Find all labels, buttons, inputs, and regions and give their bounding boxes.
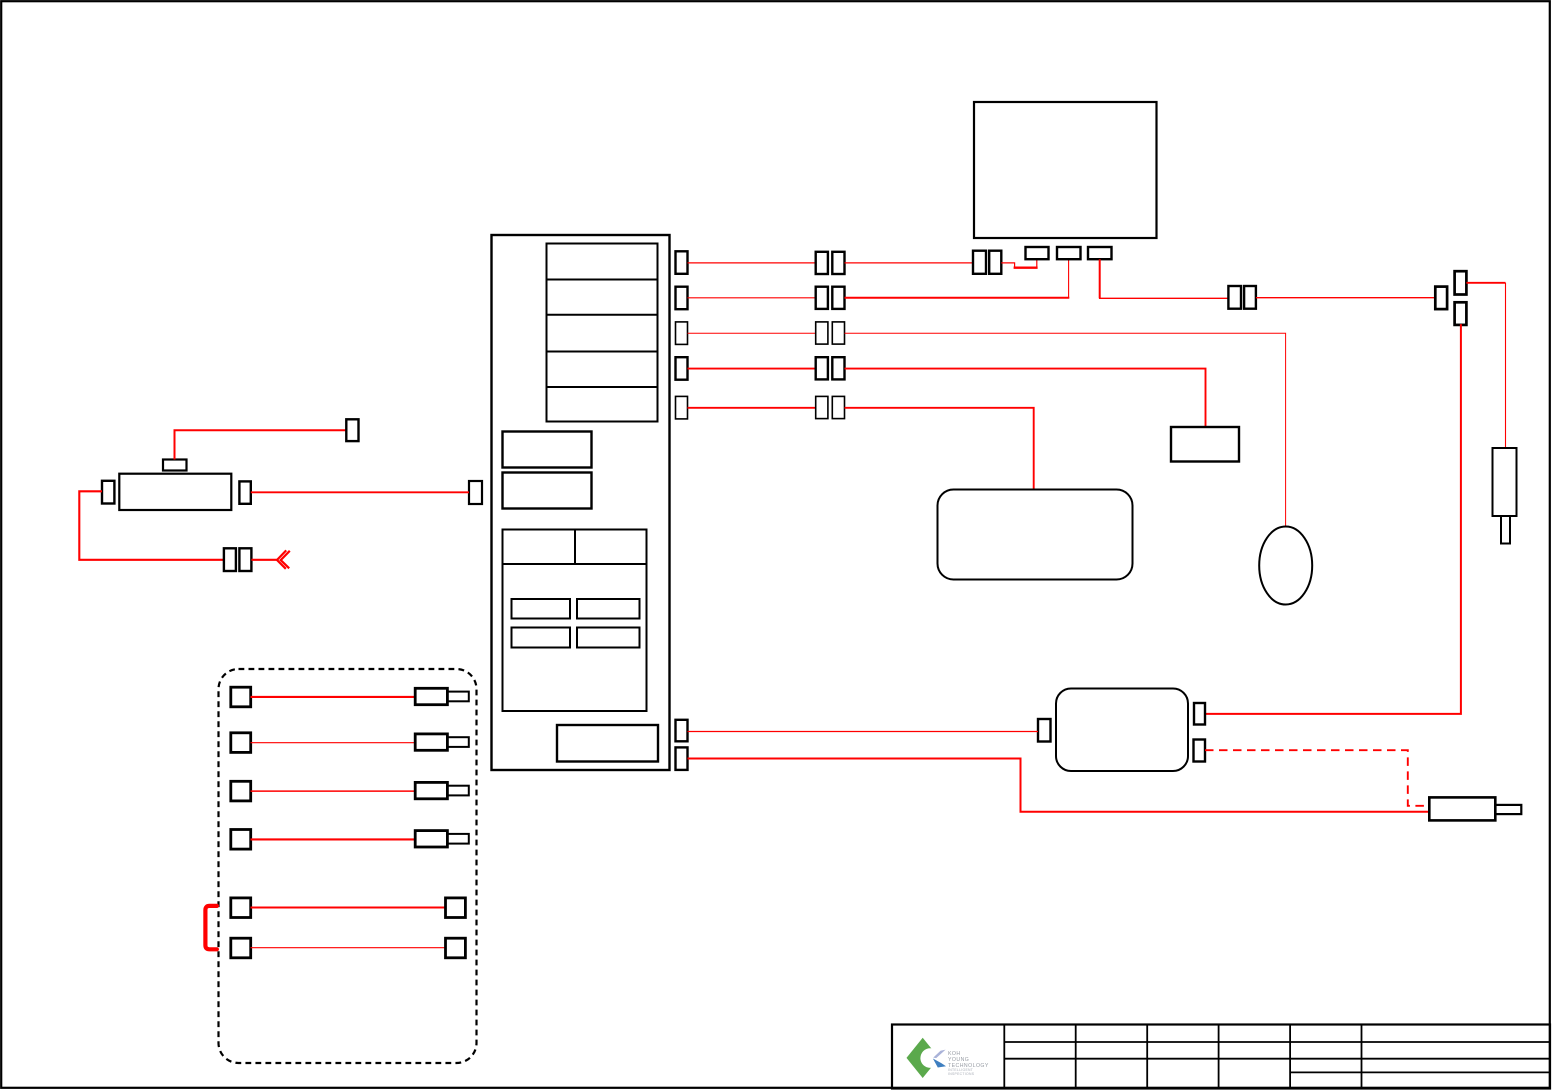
wire CN7 to DC plug	[688, 759, 1430, 812]
cable row 2 plug	[415, 734, 469, 750]
video port 1	[1026, 247, 1049, 259]
wire P4 to junction box	[845, 369, 1206, 427]
connector CN8	[1435, 287, 1447, 310]
cable row 1 wire	[251, 696, 416, 698]
wire west connector to pair P8	[79, 491, 224, 560]
cable row 3 plug	[415, 782, 469, 798]
connector CN3	[676, 322, 688, 345]
wire east connector to control unit left connector	[251, 491, 469, 493]
connector CN9 upper	[1455, 271, 1467, 294]
wire P8 stub to detach symbol	[251, 559, 277, 561]
wire CN10 down to motor right-top connector	[1205, 324, 1461, 714]
title block frame	[892, 1025, 1550, 1089]
connector CN2	[676, 287, 688, 310]
inline connector pair P8	[224, 548, 252, 571]
wire P1 to monitor pair P6	[845, 262, 974, 264]
wire P5 to camera unit	[845, 408, 1034, 490]
monitor connector pair P6	[973, 251, 1001, 274]
motor connector left	[1038, 719, 1051, 742]
cable row 5 left square	[231, 898, 251, 918]
left device body	[119, 474, 231, 510]
connector K1	[346, 419, 358, 441]
cable row 6 left square	[231, 938, 251, 958]
logo blue swoosh lower	[933, 1059, 946, 1068]
wire CN5 to pair P5	[688, 407, 816, 409]
video port 2	[1057, 247, 1081, 259]
connector CN5	[676, 396, 688, 419]
inline connector pair P4	[816, 357, 845, 379]
svg-text:INSPECTIONS: INSPECTIONS	[948, 1072, 975, 1076]
motor connector right top	[1194, 703, 1205, 725]
camera unit rounded box	[938, 490, 1133, 580]
module slot A	[503, 432, 592, 468]
fuse F2	[577, 599, 640, 619]
cable row 3 square	[231, 781, 251, 801]
relay section header row	[503, 530, 647, 565]
title block column dividers	[1004, 1025, 1361, 1089]
logo blue swoosh upper	[933, 1050, 945, 1059]
dashed wire motor to DC plug	[1205, 750, 1429, 806]
monitor display box	[974, 102, 1157, 238]
wire CN1 to pair P1	[688, 262, 816, 264]
title block row lines	[1004, 1042, 1550, 1072]
cable row 3 wire	[251, 790, 416, 792]
wire P7 to connector CN8	[1256, 297, 1435, 299]
connector CN10 lower	[1455, 302, 1467, 325]
connector CN7	[676, 747, 688, 770]
terminal strip block (5 slots)	[547, 244, 658, 422]
antenna stick stub	[1501, 516, 1510, 544]
inline connector pair P7	[1228, 286, 1256, 309]
wire P6 to video port 1	[1001, 259, 1037, 267]
sensor ellipse	[1259, 527, 1312, 605]
inline connector pair P3	[816, 322, 845, 344]
video port 3	[1088, 247, 1112, 259]
inline connector pair P2	[816, 287, 845, 309]
red pairing bracket	[205, 906, 217, 949]
cable row 6 right square	[446, 938, 466, 958]
cable row 4 wire	[251, 838, 416, 840]
DC plug body	[1429, 797, 1495, 820]
power supply box	[557, 725, 658, 762]
cable row 5 wire	[251, 906, 446, 908]
connector CN-L on control unit left edge	[469, 481, 482, 504]
cable row 6 wire	[251, 947, 446, 949]
motor connector right bottom	[1194, 740, 1206, 762]
cable row 4 plug	[415, 831, 469, 847]
wire P3 to sensor ellipse	[845, 333, 1286, 526]
left device connector west	[102, 481, 114, 504]
logo white circle	[920, 1048, 940, 1068]
cable row 5 right square	[446, 898, 466, 918]
wire CN9 to antenna stick	[1466, 282, 1505, 284]
control unit main box	[492, 235, 670, 770]
fuse F1	[512, 599, 571, 619]
connector CN6	[676, 720, 688, 742]
left device top port	[163, 460, 187, 471]
connector CN1	[676, 251, 688, 273]
antenna stick body	[1493, 448, 1517, 516]
motor unit rounded box	[1056, 689, 1188, 772]
left device connector east	[239, 481, 250, 503]
wire video port 3 to pair P7	[1099, 259, 1228, 298]
module slot B	[503, 473, 592, 509]
wire CN2 to pair P2	[688, 297, 816, 299]
cable group dashed enclosure	[219, 669, 477, 1063]
cable row 1 square	[231, 687, 251, 707]
logo text	[948, 1051, 989, 1069]
inline connector pair P1	[816, 252, 845, 274]
cable row 2 square	[231, 733, 251, 753]
wire top port to connector K1	[175, 430, 347, 459]
wire P2 to video port 2	[845, 259, 1070, 298]
connector CN4	[676, 357, 688, 380]
wire CN6 to motor left connector	[688, 731, 1039, 733]
wire CN3 to pair P3	[688, 332, 816, 334]
Koh Young logo diamond	[907, 1038, 940, 1078]
DC plug tip	[1495, 805, 1521, 814]
cable row 2 wire	[251, 742, 416, 744]
detach chevron symbol	[277, 550, 290, 568]
inline connector pair P5	[816, 396, 845, 418]
wire CN4 to pair P4	[688, 368, 816, 370]
fuse F3	[512, 628, 571, 648]
cable row 1 plug	[415, 688, 469, 704]
fuse F4	[577, 628, 640, 648]
cable row 4 square	[231, 830, 251, 850]
junction box	[1171, 427, 1239, 462]
relay section body	[503, 564, 647, 711]
